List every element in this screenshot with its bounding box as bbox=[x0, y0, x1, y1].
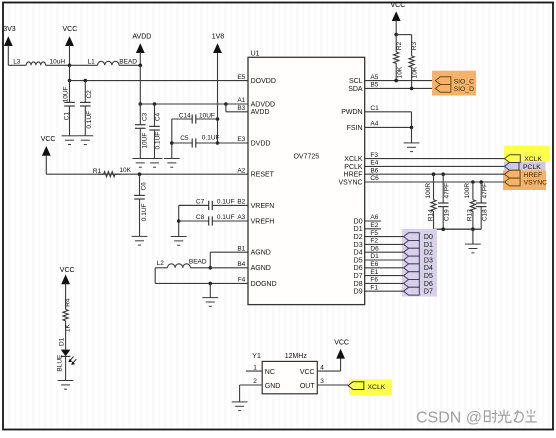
wire PWDN bbox=[365, 111, 412, 113]
wire D1 bus bbox=[365, 243, 404, 245]
ground C4 bbox=[147, 159, 163, 168]
svg-text:D1: D1 bbox=[354, 226, 363, 233]
capacitor C6 bbox=[134, 174, 145, 236]
capacitor C14 bbox=[172, 114, 218, 123]
junction VCC/rail bbox=[68, 64, 72, 68]
svg-text:47PF: 47PF bbox=[481, 183, 488, 199]
svg-text:U1: U1 bbox=[251, 51, 260, 58]
svg-text:10K: 10K bbox=[119, 167, 131, 174]
svg-text:D3: D3 bbox=[354, 242, 363, 249]
svg-text:D5: D5 bbox=[354, 257, 363, 264]
svg-text:R14: R14 bbox=[427, 209, 434, 221]
svg-text:C6: C6 bbox=[140, 182, 147, 191]
node D0-D7 group box bbox=[402, 229, 437, 297]
svg-text:Y1: Y1 bbox=[252, 353, 261, 360]
capacitor C3 bbox=[135, 104, 146, 159]
power VCC reset bbox=[41, 136, 56, 174]
wire VSYNC bbox=[365, 181, 505, 183]
resistor R1 bbox=[98, 172, 121, 177]
svg-text:VREFH: VREFH bbox=[251, 218, 275, 225]
svg-text:VSYNC: VSYNC bbox=[524, 180, 548, 187]
port D4 bbox=[404, 264, 420, 272]
wire Y1 pin4 bbox=[317, 370, 340, 372]
ground PWDN/FSIN bbox=[404, 143, 420, 152]
svg-text:HREF: HREF bbox=[524, 172, 543, 179]
svg-text:L1: L1 bbox=[88, 59, 96, 66]
svg-text:XCLK: XCLK bbox=[524, 156, 542, 163]
svg-text:100R: 100R bbox=[425, 183, 432, 199]
svg-text:C4: C4 bbox=[154, 112, 161, 121]
node HREF/VSYNC box bbox=[503, 170, 546, 190]
svg-text:E3: E3 bbox=[237, 136, 245, 143]
svg-text:E1: E1 bbox=[370, 269, 378, 276]
ground C7/C8 bbox=[171, 237, 187, 246]
port SIO_C bbox=[435, 77, 451, 85]
port D0 bbox=[404, 233, 420, 241]
svg-text:ADVDD: ADVDD bbox=[251, 101, 276, 108]
junction C2/DOVDD bbox=[84, 79, 88, 83]
wire to R3 bbox=[396, 34, 411, 36]
wire AGND to U1.B4 bbox=[190, 267, 248, 269]
svg-text:SCL: SCL bbox=[349, 78, 363, 85]
svg-text:A3: A3 bbox=[237, 214, 245, 221]
ground C3 bbox=[132, 159, 148, 168]
op-amp U1 OV7725 body bbox=[248, 57, 365, 304]
svg-text:D0: D0 bbox=[354, 218, 363, 225]
junction R3/SDA bbox=[410, 87, 414, 91]
wire D1 to ground bbox=[65, 356, 67, 380]
svg-text:DOGND: DOGND bbox=[251, 281, 277, 288]
svg-text:E4: E4 bbox=[370, 160, 378, 167]
ground C1 bbox=[62, 136, 78, 145]
node XCLK bottom box bbox=[349, 379, 392, 395]
wire DVDD to U1.E3 bbox=[218, 142, 249, 144]
svg-text:0.1UF: 0.1UF bbox=[217, 198, 235, 205]
power VCC pullups bbox=[391, 2, 406, 35]
svg-text:A2: A2 bbox=[237, 167, 245, 174]
wire PWDN down bbox=[411, 112, 413, 128]
wire D7 bus bbox=[365, 290, 404, 292]
node XCLK box bbox=[504, 146, 550, 162]
junction C1/DOVDD bbox=[68, 79, 72, 83]
svg-text:PCLK: PCLK bbox=[523, 164, 541, 171]
port D1 bbox=[404, 241, 420, 249]
inductor L3 bbox=[26, 62, 45, 65]
port D2 bbox=[404, 248, 420, 256]
svg-text:CSDN @: CSDN @ bbox=[416, 410, 482, 427]
wire Y1 pin3 OUT bbox=[317, 384, 348, 386]
svg-text:C2: C2 bbox=[86, 90, 93, 99]
svg-text:C19: C19 bbox=[443, 209, 450, 221]
wire VCC to L1 bbox=[70, 64, 98, 66]
wire D2 bus bbox=[365, 251, 404, 253]
watermark CJK glyphs bbox=[485, 410, 537, 423]
wire XCLK bbox=[365, 158, 505, 160]
svg-text:D3: D3 bbox=[424, 257, 433, 264]
wire D5 bus bbox=[365, 275, 404, 277]
power 3V3 bbox=[3, 26, 16, 65]
ground Y1 bbox=[232, 402, 248, 411]
port D6 bbox=[404, 280, 420, 288]
svg-text:DVDD: DVDD bbox=[251, 140, 271, 147]
svg-text:B5: B5 bbox=[370, 82, 378, 89]
junction AVDD/rail bbox=[139, 64, 143, 68]
resistor R2 bbox=[394, 35, 399, 81]
svg-text:C3: C3 bbox=[141, 112, 148, 121]
wire SCL bbox=[365, 80, 436, 82]
ground C6 bbox=[132, 236, 148, 245]
svg-text:C1: C1 bbox=[370, 105, 379, 112]
junction C14/1V8 bbox=[216, 117, 220, 121]
svg-text:VCC: VCC bbox=[41, 136, 56, 143]
svg-text:12MHz: 12MHz bbox=[285, 353, 308, 360]
svg-text:PWDN: PWDN bbox=[341, 109, 362, 116]
svg-text:100R: 100R bbox=[464, 183, 471, 199]
svg-text:BEAD: BEAD bbox=[189, 259, 207, 266]
capacitor C4 bbox=[149, 104, 160, 159]
junction R14/HREF bbox=[432, 172, 436, 176]
resistor R13 bbox=[470, 182, 475, 229]
port XCLK bottom bbox=[348, 382, 364, 390]
capacitor C2 bbox=[80, 81, 91, 136]
svg-text:L2: L2 bbox=[157, 260, 165, 267]
svg-text:C6: C6 bbox=[370, 175, 379, 182]
svg-text:R13: R13 bbox=[466, 209, 473, 221]
svg-text:0.1UF: 0.1UF bbox=[86, 111, 93, 129]
svg-text:VCC: VCC bbox=[300, 369, 315, 376]
svg-text:A1: A1 bbox=[237, 97, 245, 104]
svg-text:1: 1 bbox=[253, 364, 257, 371]
junction C5 left bbox=[170, 141, 174, 145]
svg-text:C5: C5 bbox=[180, 135, 189, 142]
svg-text:B3: B3 bbox=[237, 105, 245, 112]
ground RC rail bbox=[465, 244, 481, 253]
svg-text:D1: D1 bbox=[424, 242, 433, 249]
svg-text:BLUE: BLUE bbox=[57, 354, 64, 372]
ground C14/C5 bbox=[164, 159, 180, 168]
svg-text:10uH: 10uH bbox=[50, 59, 66, 66]
svg-text:D6: D6 bbox=[354, 265, 363, 272]
junction C19 bottom bbox=[441, 227, 445, 231]
svg-text:SIO_C: SIO_C bbox=[454, 78, 474, 85]
svg-text:D7: D7 bbox=[354, 273, 363, 280]
led D1 bbox=[61, 350, 77, 365]
svg-text:A6: A6 bbox=[370, 214, 378, 221]
svg-text:VCC: VCC bbox=[60, 267, 75, 274]
junction C6/RESET bbox=[138, 172, 142, 176]
wire HREF bbox=[365, 173, 505, 175]
node SIO_C / SIO_D group box bbox=[432, 71, 476, 96]
resistor R3 bbox=[409, 35, 414, 89]
svg-text:E5: E5 bbox=[237, 74, 245, 81]
power VCC oscillator bbox=[334, 340, 349, 359]
svg-text:F4: F4 bbox=[238, 277, 246, 284]
svg-text:OUT: OUT bbox=[300, 383, 316, 390]
svg-text:XCLK: XCLK bbox=[344, 156, 363, 163]
wire D6 bus bbox=[365, 282, 404, 284]
wire SDA bbox=[365, 87, 436, 89]
port D7 bbox=[404, 287, 420, 295]
svg-text:E6: E6 bbox=[370, 261, 378, 268]
power 1V8 bbox=[212, 34, 225, 53]
svg-text:L3: L3 bbox=[13, 59, 21, 66]
svg-text:VREFN: VREFN bbox=[251, 203, 275, 210]
port HREF bbox=[505, 170, 520, 178]
svg-text:10K: 10K bbox=[411, 66, 418, 78]
wire AVDD down to ADVDD net bbox=[139, 65, 141, 104]
svg-text:XCLK: XCLK bbox=[368, 384, 386, 391]
svg-text:C7: C7 bbox=[196, 198, 205, 205]
svg-text:PCLK: PCLK bbox=[344, 164, 363, 171]
port VSYNC bbox=[505, 178, 520, 186]
svg-text:VCC: VCC bbox=[334, 340, 349, 347]
wire ADVDD to U1.A1 bbox=[140, 103, 248, 105]
junction C4/ADVDD bbox=[153, 102, 157, 106]
capacitor C19 bbox=[438, 174, 449, 229]
wire stub E2 bbox=[365, 228, 381, 230]
wire FSIN bbox=[365, 126, 412, 128]
svg-text:F3: F3 bbox=[370, 152, 378, 159]
port XCLK bbox=[505, 155, 521, 163]
svg-text:NC: NC bbox=[265, 369, 275, 376]
svg-text:F5: F5 bbox=[370, 230, 378, 237]
svg-text:D7: D7 bbox=[424, 289, 433, 296]
junction R2/R3 top bbox=[394, 33, 398, 37]
svg-text:47PF: 47PF bbox=[443, 183, 450, 199]
svg-text:OV7725: OV7725 bbox=[293, 153, 319, 160]
wire C8 left bbox=[179, 220, 207, 222]
port D3 bbox=[404, 256, 420, 264]
wire D0 bus bbox=[365, 236, 404, 238]
ground D1 bbox=[58, 381, 74, 390]
wire L3 to VCC node bbox=[46, 64, 70, 66]
svg-text:D4: D4 bbox=[424, 265, 433, 272]
svg-text:D6: D6 bbox=[424, 281, 433, 288]
junction R13 bottom bbox=[471, 227, 475, 231]
ground DOGND bbox=[202, 298, 218, 307]
wire DOVDD to U1.E5 bbox=[70, 80, 249, 82]
junction AGND bbox=[209, 266, 213, 270]
capacitor C5 bbox=[172, 138, 218, 147]
wire RESET to U1.A2 bbox=[46, 173, 248, 175]
wire RC bottom rail bbox=[434, 228, 482, 230]
port SIO_D bbox=[435, 85, 451, 93]
capacitor C1 bbox=[64, 81, 75, 136]
junction DOGND bbox=[209, 282, 213, 286]
svg-text:AGND: AGND bbox=[251, 250, 271, 257]
svg-text:10UF: 10UF bbox=[199, 113, 215, 120]
svg-text:HREF: HREF bbox=[344, 172, 363, 179]
wire C7 left bbox=[179, 204, 207, 206]
svg-text:VSYNC: VSYNC bbox=[338, 179, 362, 186]
wire DOGND ground stub bbox=[209, 283, 211, 297]
svg-text:F1: F1 bbox=[370, 284, 378, 291]
junction FSIN/ground bbox=[410, 126, 414, 130]
inductor L1 bbox=[98, 61, 120, 65]
wire L2 left lead bbox=[155, 267, 167, 269]
wire C7/C8 ground leg bbox=[178, 205, 180, 236]
svg-text:1V8: 1V8 bbox=[212, 34, 225, 41]
capacitor C7 bbox=[179, 201, 248, 210]
wire stub A6 bbox=[365, 220, 381, 222]
power VCC bbox=[63, 26, 78, 65]
svg-text:4: 4 bbox=[320, 364, 324, 371]
svg-text:D0: D0 bbox=[424, 234, 433, 241]
svg-text:C8: C8 bbox=[196, 214, 205, 221]
svg-text:A5: A5 bbox=[370, 74, 378, 81]
inductor L2 bbox=[168, 264, 191, 268]
svg-text:D5: D5 bbox=[424, 273, 433, 280]
wire R4 to D1 bbox=[65, 330, 67, 350]
junction R2/SCL bbox=[394, 79, 398, 83]
node PCLK box bbox=[504, 162, 546, 170]
wire pin4 up bbox=[340, 358, 342, 371]
port PCLK bbox=[505, 163, 519, 171]
wire pin2 down bbox=[239, 385, 241, 402]
svg-text:AVDD: AVDD bbox=[251, 109, 270, 116]
wire D3 bus bbox=[365, 259, 404, 261]
svg-text:BEAD: BEAD bbox=[119, 59, 137, 66]
svg-text:AVDD: AVDD bbox=[132, 34, 151, 41]
svg-text:B4: B4 bbox=[237, 261, 245, 268]
svg-text:FSIN: FSIN bbox=[347, 125, 363, 132]
svg-text:VCC: VCC bbox=[391, 2, 406, 9]
wire rail ground stub bbox=[472, 229, 474, 244]
svg-text:VCC: VCC bbox=[63, 26, 78, 33]
power VCC led bbox=[60, 267, 75, 309]
svg-text:A4: A4 bbox=[370, 121, 378, 128]
svg-text:AGND: AGND bbox=[251, 265, 271, 272]
svg-text:GND: GND bbox=[265, 383, 281, 390]
wire 3V3 to L3 bbox=[8, 64, 26, 66]
svg-text:0.1UF: 0.1UF bbox=[217, 214, 235, 221]
svg-text:SDA: SDA bbox=[348, 86, 363, 93]
svg-text:F2: F2 bbox=[370, 238, 378, 245]
svg-text:R2: R2 bbox=[396, 41, 403, 50]
svg-text:0.1UF: 0.1UF bbox=[154, 132, 161, 150]
svg-text:D2: D2 bbox=[424, 250, 433, 257]
power AVDD bbox=[132, 34, 151, 66]
wire AVDD stub down bbox=[225, 104, 227, 112]
svg-text:D8: D8 bbox=[354, 281, 363, 288]
svg-text:B1: B1 bbox=[237, 245, 245, 252]
wire DOGND to U1.F4 bbox=[155, 282, 248, 284]
svg-text:0.1UF: 0.1UF bbox=[141, 203, 148, 221]
junction C18/VSYNC bbox=[479, 180, 483, 184]
wire B1 down bbox=[209, 252, 211, 268]
svg-text:2: 2 bbox=[253, 378, 257, 385]
junction R13/VSYNC bbox=[471, 180, 475, 184]
svg-text:10UF: 10UF bbox=[63, 86, 70, 102]
junction C3/ADVDD bbox=[139, 102, 143, 106]
svg-text:D9: D9 bbox=[354, 289, 363, 296]
wire L2 down bbox=[154, 268, 156, 284]
wire AVDD stub to U1.B3 bbox=[226, 111, 248, 113]
wire U1.B1 AGND bbox=[210, 251, 248, 253]
svg-text:SIO_D: SIO_D bbox=[454, 86, 474, 93]
svg-text:C1: C1 bbox=[64, 112, 71, 121]
svg-text:3V3: 3V3 bbox=[3, 26, 16, 33]
svg-text:D6: D6 bbox=[370, 245, 379, 252]
svg-text:D1: D1 bbox=[370, 253, 379, 260]
svg-text:0.1UF: 0.1UF bbox=[202, 134, 220, 141]
wire Y1 pin1 stub bbox=[246, 370, 262, 372]
resistor R4 bbox=[63, 300, 68, 330]
svg-text:D1: D1 bbox=[59, 337, 66, 346]
junction C19/HREF bbox=[441, 172, 445, 176]
wire FSIN ground stub bbox=[411, 127, 413, 142]
svg-text:B6: B6 bbox=[370, 167, 378, 174]
svg-text:D2: D2 bbox=[354, 234, 363, 241]
svg-text:B2: B2 bbox=[237, 199, 245, 206]
oscillator Y1 body bbox=[262, 361, 317, 393]
wire L1 to AVDD node bbox=[119, 64, 140, 66]
svg-text:3: 3 bbox=[320, 378, 324, 385]
wire 1V8 down to DVDD bbox=[217, 53, 219, 144]
capacitor C18 bbox=[476, 182, 487, 229]
wire C14/C5 ground leg bbox=[171, 119, 173, 159]
wire Y1 pin2 bbox=[240, 384, 263, 386]
svg-text:10UF: 10UF bbox=[141, 133, 148, 149]
svg-text:RESET: RESET bbox=[251, 172, 275, 179]
ground C2 bbox=[77, 136, 93, 145]
junction DVDD bbox=[216, 141, 220, 145]
port D5 bbox=[404, 272, 420, 280]
wire PCLK bbox=[365, 165, 505, 167]
svg-text:E2: E2 bbox=[370, 222, 378, 229]
svg-text:F6: F6 bbox=[370, 277, 378, 284]
capacitor C8 bbox=[179, 216, 248, 225]
svg-text:10K: 10K bbox=[396, 66, 403, 78]
svg-text:C18: C18 bbox=[481, 209, 488, 221]
wire VCC node down bbox=[69, 65, 71, 80]
junction C8 left bbox=[177, 219, 181, 223]
wire D4 bus bbox=[365, 267, 404, 269]
resistor R14 bbox=[431, 174, 436, 229]
junction AVDD stub bbox=[224, 102, 228, 106]
svg-text:DOVDD: DOVDD bbox=[251, 78, 276, 85]
svg-text:D4: D4 bbox=[354, 250, 363, 257]
